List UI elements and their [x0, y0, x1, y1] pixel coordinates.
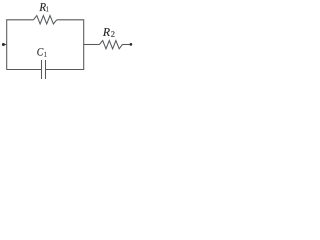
resistor R2 [99, 41, 122, 49]
glyph subscript 1 of label R1 [46, 6, 48, 11]
wire: top-right segment, right vertical, bottom-right segment (to C1 right plate) [46, 20, 84, 70]
glyph R of label R2 [103, 28, 110, 36]
wire: R2 branch from right vertical [84, 44, 100, 46]
wire: R2 to output terminal [122, 44, 129, 46]
wire: top-left segment and left vertical and bottom-left segment (to C1 left plate) [7, 20, 41, 70]
capacitor C1 right plate [45, 60, 47, 79]
node: output terminal dot [130, 43, 133, 46]
glyph subscript 2 of label R2 [111, 31, 114, 36]
glyph subscript 1 of label C1 [44, 52, 46, 57]
wire: input stub at left terminal [3, 44, 6, 46]
resistor R1 [34, 16, 57, 24]
glyph R of label R1 [39, 3, 46, 11]
capacitor C1 left plate [41, 60, 43, 79]
node: input terminal dot [2, 43, 5, 46]
glyph C of label C1 [37, 48, 43, 56]
